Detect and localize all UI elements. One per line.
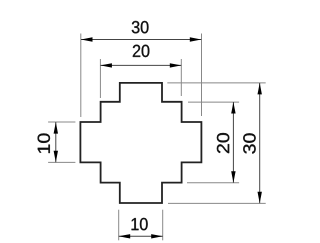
dimension 20 top: arrow left [100,63,112,67]
dimension 10 left: extension line top [48,121,75,123]
dimension 30 right: arrow down [258,192,262,204]
dimension 30 right: dimension line [259,83,261,203]
dimension 10 bottom: dimension line [119,235,163,237]
dimension 10 left: label 10 [38,133,50,153]
dimension 20 right: label 20 [217,133,229,153]
dimension 30 right: arrow up [258,83,262,95]
dimension 20 top: label 20 [133,45,149,57]
dimension 10 bottom: arrow left [119,234,131,238]
dimension 20 right: arrow down [231,171,235,183]
dimension 30 top: extension line left [80,34,82,118]
dimension 10 left: arrow down [54,151,58,163]
dimension 30 top: arrow right [190,37,202,41]
dimension 10 bottom: label 10 [132,218,148,230]
dimension 20 right: dimension line [232,102,234,183]
dimension 30 right: extension line bottom [168,202,266,204]
dimension 10 left: dimension line [55,122,57,162]
dimension 30 top: label 30 [132,21,149,33]
dimension 20 right: arrow up [231,102,235,114]
dimension 10 bottom: extension line left [118,210,120,241]
dimension 30 right: extension line top [167,82,265,84]
dimension 20 top: dimension line [100,64,181,66]
dimension 30 top: arrow left [81,37,93,41]
dimension 10 left: arrow up [54,122,58,134]
dimension 20 top: extension line left [99,59,101,98]
dimension 10 left: extension line bottom [48,161,75,163]
dimension 30 top: dimension line [81,39,201,41]
stepped cross outline [80,83,201,203]
dimension 30 top: extension line right [201,34,203,117]
dimension 30 right: label 30 [243,133,255,153]
dimension 20 top: extension line right [180,59,182,96]
dimension 20 right: extension line bottom [187,182,239,184]
dimension 10 bottom: arrow right [151,234,163,238]
dimension 20 top: arrow right [170,63,182,67]
dimension 20 right: extension line top [188,101,239,103]
dimension 10 bottom: extension line right [162,210,164,241]
